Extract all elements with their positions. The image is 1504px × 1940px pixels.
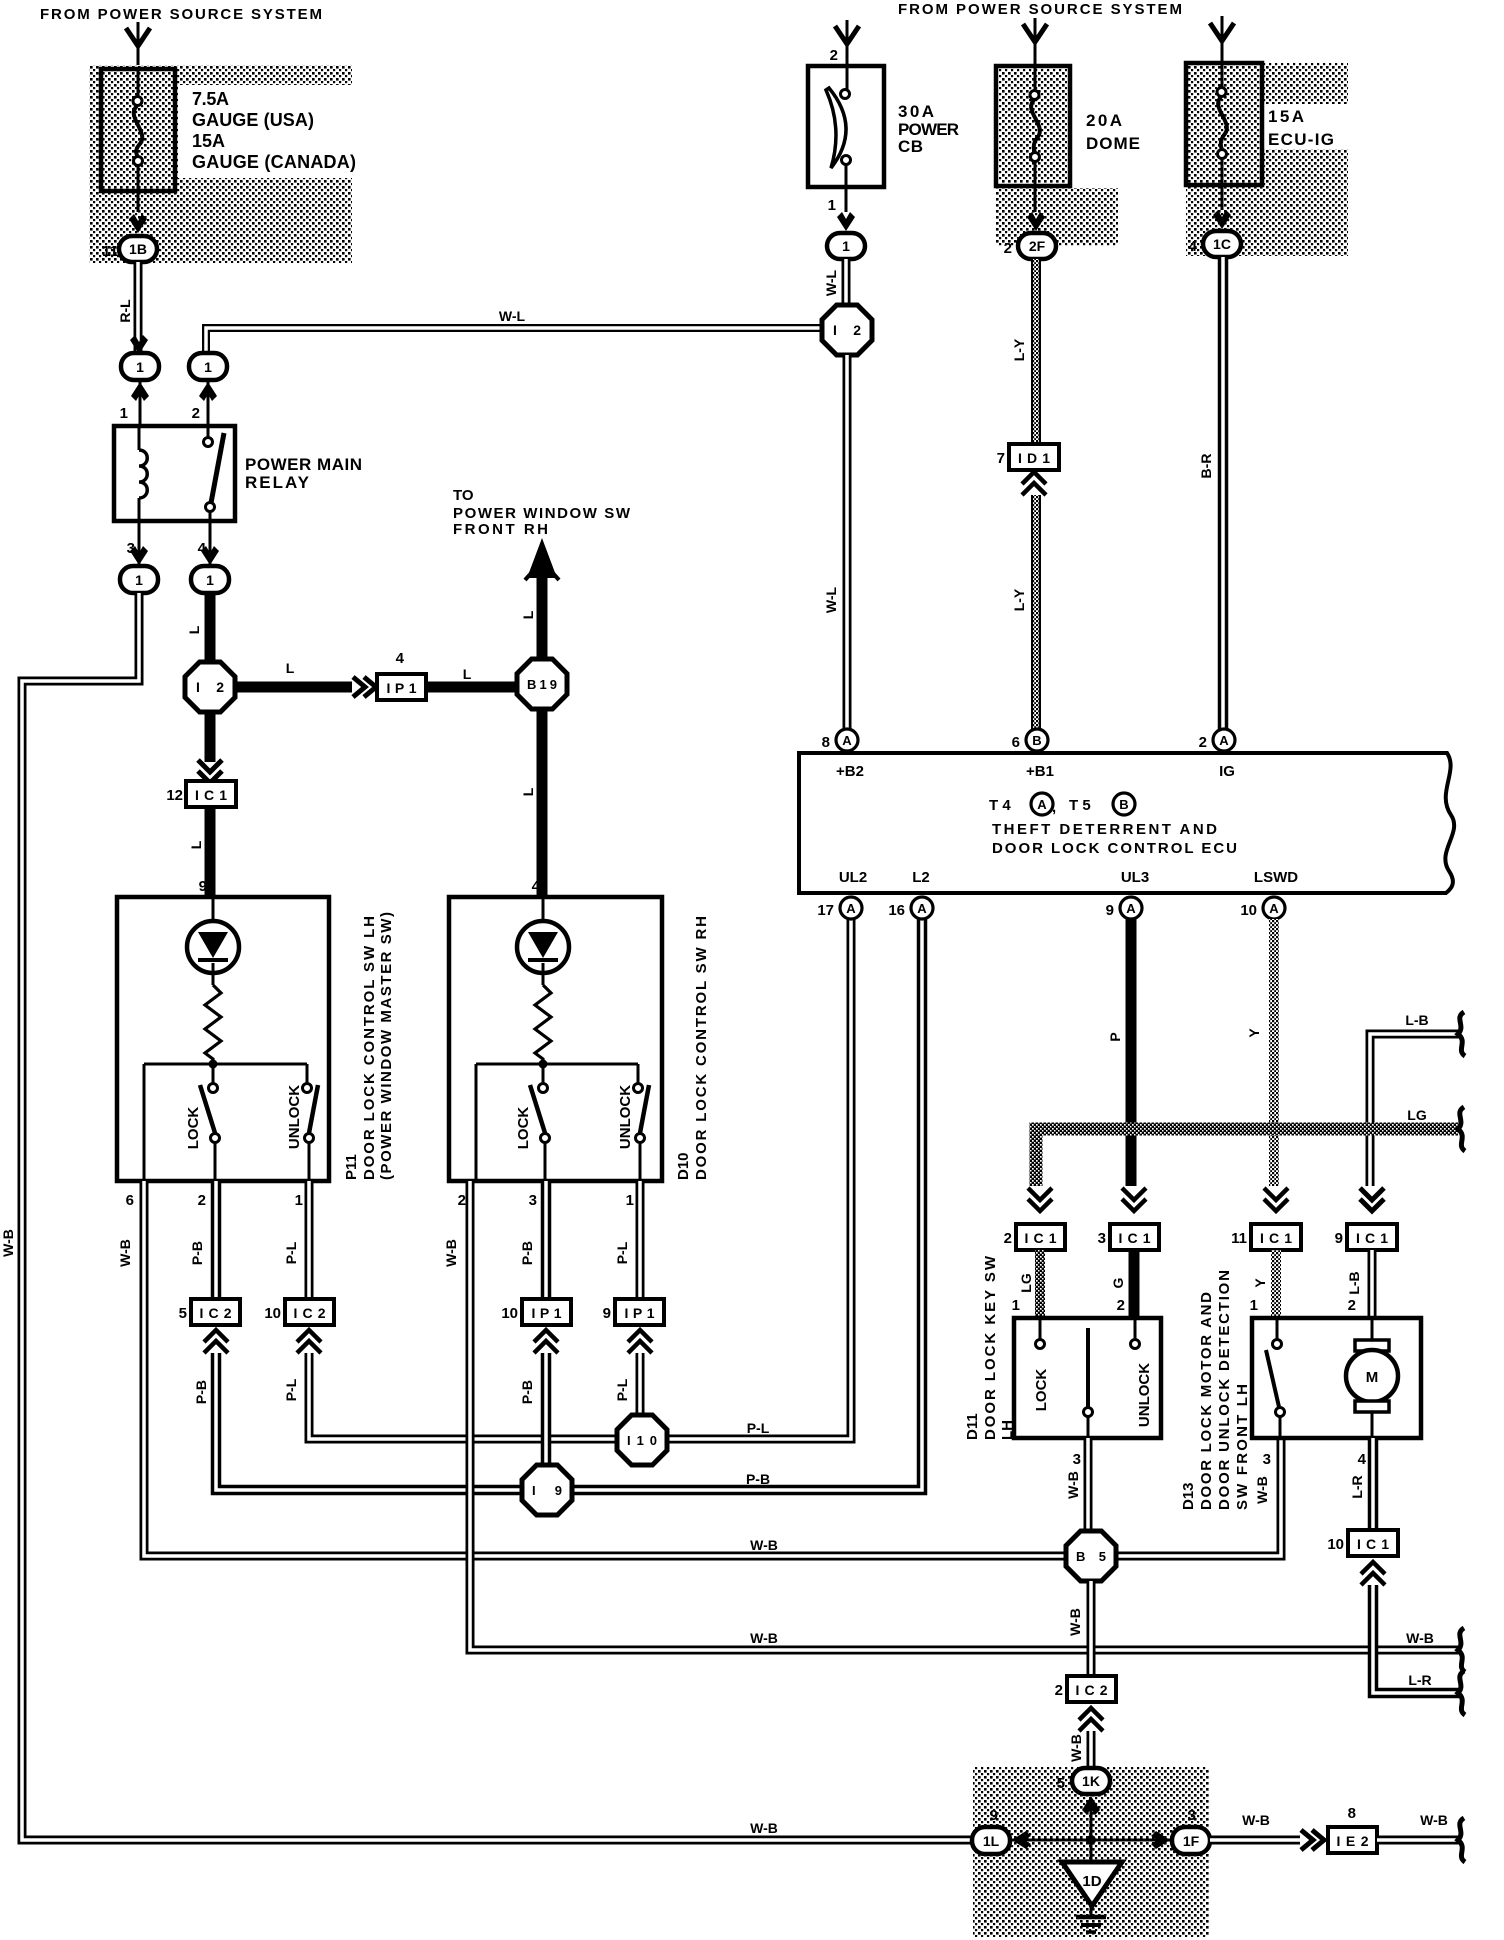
svg-text:4: 4	[532, 878, 541, 895]
svg-text:2: 2	[1055, 1682, 1063, 1699]
svg-text:10: 10	[1327, 1536, 1344, 1553]
chevrons into IE2	[1301, 1830, 1324, 1850]
svg-text:10: 10	[501, 1305, 518, 1322]
connector box IP1 pin 10	[522, 1299, 571, 1325]
svg-text:8: 8	[822, 734, 830, 751]
switch box P11 DOOR LOCK CONTROL SW LH	[117, 897, 329, 1181]
node junction	[209, 1060, 218, 1069]
stipple in and below DOME fuse	[999, 69, 1067, 183]
fuse 20A DOME box	[996, 66, 1070, 186]
svg-text:B: B	[1032, 733, 1041, 748]
svg-text:2: 2	[198, 1192, 206, 1209]
svg-text:4: 4	[1358, 1451, 1367, 1468]
wire P-B thick down to I9	[541, 1353, 552, 1470]
svg-text:9: 9	[199, 878, 207, 895]
svg-text:L: L	[520, 610, 536, 619]
svg-text:GAUGE (CANADA): GAUGE (CANADA)	[192, 152, 356, 172]
svg-text:L-R: L-R	[1349, 1475, 1365, 1498]
svg-text:W-L: W-L	[499, 308, 526, 324]
svg-text:Y: Y	[1252, 1278, 1268, 1288]
wire P-L from D10 pin1 to IP1 pin9	[636, 1181, 645, 1299]
svg-text:2: 2	[1117, 1297, 1125, 1314]
svg-text:LOCK: LOCK	[185, 1107, 202, 1150]
svg-text:5: 5	[1057, 1775, 1065, 1792]
svg-text:L: L	[286, 660, 295, 676]
connector oval 1B pin 11	[119, 236, 157, 262]
svg-text:P: P	[1107, 1032, 1123, 1041]
flow arrow down	[130, 335, 148, 354]
connector oval 1C pin 4	[1203, 231, 1241, 257]
D13 motor M	[1371, 1318, 1374, 1342]
brace W-B bottom right	[1458, 1818, 1465, 1862]
D11 key blade	[1086, 1328, 1090, 1407]
wire L thick to P11 pin 9	[205, 807, 216, 897]
chevrons up into IC1-10	[1361, 1562, 1385, 1585]
ground triangle 1D	[1062, 1862, 1122, 1906]
D11 LOCK contact	[1039, 1318, 1042, 1339]
svg-text:DOOR UNLOCK DETECTION: DOOR UNLOCK DETECTION	[1216, 1270, 1233, 1510]
svg-text:1: 1	[135, 572, 143, 588]
ECU pin 8 A +B2	[836, 729, 858, 751]
LED indicator D10	[542, 897, 545, 921]
chevrons down into IC1	[198, 760, 222, 783]
wire L thick to B19	[426, 682, 518, 693]
wire L-Y to ID1	[1031, 259, 1041, 446]
wire W-B from P11 pin6 to B5 and D13 pin3	[144, 1181, 1281, 1556]
svg-text:W-B: W-B	[1067, 1608, 1083, 1636]
svg-text:1: 1	[842, 238, 850, 254]
wire P-B from D10 pin3 to IP1 pin10	[541, 1181, 552, 1299]
svg-text:LG: LG	[1018, 1273, 1034, 1293]
wire W-B from IE2 to right brace	[1377, 1836, 1460, 1845]
svg-text:W-B: W-B	[1420, 1812, 1448, 1828]
chevrons down into IC1-11	[1264, 1188, 1288, 1211]
connector oval 1F pin 3	[1172, 1827, 1210, 1854]
svg-text:UNLOCK: UNLOCK	[1136, 1363, 1153, 1427]
chevrons up into IP1-9	[628, 1330, 652, 1353]
wire relay pin4	[209, 521, 212, 564]
wire P thick from UL3 to IC1-3	[1126, 919, 1137, 1186]
svg-text:P-B: P-B	[189, 1241, 205, 1265]
svg-text:P-L: P-L	[283, 1241, 299, 1264]
ECU pin 2 A IG	[1213, 729, 1235, 751]
connector box IC1 pin 9	[1347, 1224, 1397, 1250]
flow arrow into oval 1	[837, 212, 855, 231]
junction octagon I 9	[522, 1465, 572, 1515]
connector box ID1 pin 7	[1009, 444, 1059, 470]
svg-text:A: A	[1037, 797, 1047, 812]
svg-text:W-B: W-B	[1406, 1630, 1434, 1646]
inner switch bus	[144, 1063, 307, 1066]
fuse element	[137, 69, 140, 97]
svg-text:1: 1	[1250, 1297, 1258, 1314]
flow arrow right into 1F	[1151, 1831, 1170, 1849]
svg-text:6: 6	[1012, 734, 1020, 751]
chevrons up into IC2-2	[1079, 1708, 1103, 1731]
chevrons down into IC1-9	[1360, 1188, 1384, 1211]
svg-text:L: L	[520, 787, 536, 796]
wire L thick down from B19 to D10 pin4	[537, 709, 548, 897]
svg-text:20A: 20A	[1086, 111, 1122, 130]
wire relay pin3	[138, 521, 141, 564]
junction node dot	[1086, 1835, 1096, 1845]
chevrons up into IC2-10	[297, 1330, 321, 1353]
svg-text:L-R: L-R	[1408, 1672, 1431, 1688]
connector box IE2 pin 8	[1328, 1827, 1377, 1853]
svg-text:1: 1	[206, 572, 214, 588]
svg-text:4: 4	[1189, 238, 1198, 255]
flow arrow left into 1L	[1012, 1831, 1031, 1849]
svg-text:P-L: P-L	[747, 1420, 770, 1436]
junction octagon I 2 (mid)	[185, 662, 235, 712]
svg-text:1D: 1D	[1082, 1873, 1101, 1890]
wire P-L from P11 pin1 to IC2 pin10	[305, 1181, 314, 1299]
svg-text:L: L	[188, 840, 204, 849]
chevrons up into IC2-5	[204, 1330, 228, 1353]
svg-text:T 4: T 4	[989, 797, 1011, 814]
wire L-B to D13 pin2	[1368, 1250, 1377, 1318]
svg-text:UL3: UL3	[1121, 869, 1149, 886]
brace L-B right	[1458, 1012, 1465, 1056]
svg-text:L-Y: L-Y	[1011, 588, 1027, 611]
svg-text:1F: 1F	[1183, 1833, 1200, 1849]
junction octagon I 2 (top)	[822, 305, 872, 355]
svg-text:P-B: P-B	[519, 1241, 535, 1265]
svg-text:1: 1	[120, 405, 128, 422]
svg-text:DOOR LOCK MOTOR AND: DOOR LOCK MOTOR AND	[1198, 1292, 1215, 1510]
svg-text:UNLOCK: UNLOCK	[286, 1085, 303, 1149]
wire R-L	[134, 262, 143, 351]
stipple region junction block bottom	[973, 1767, 1209, 1937]
wire arrow into 30A CB	[846, 20, 849, 68]
wire P-B from P11 pin2 to IC2 pin5	[211, 1181, 222, 1299]
svg-text:DOME: DOME	[1086, 134, 1140, 153]
junction octagon I10	[617, 1415, 667, 1465]
svg-text:1K: 1K	[1082, 1773, 1100, 1789]
wire LG gray from right brace to IC1-2	[1036, 1129, 1458, 1186]
svg-text:CB: CB	[898, 137, 923, 156]
svg-text:G: G	[1110, 1277, 1126, 1288]
svg-text:W-B: W-B	[1065, 1471, 1081, 1499]
junction octagon B19	[517, 659, 567, 709]
svg-text:SW FRONT LH: SW FRONT LH	[1234, 1384, 1251, 1510]
svg-text:2: 2	[830, 47, 838, 64]
svg-text:W-B: W-B	[750, 1537, 778, 1553]
LED indicator P11	[212, 897, 215, 921]
connector oval 2F pin 2	[1018, 233, 1056, 259]
svg-text:15A: 15A	[192, 131, 225, 151]
svg-text:2: 2	[1348, 1297, 1356, 1314]
connector box IC2 pin 2	[1067, 1676, 1116, 1702]
svg-text:3: 3	[1263, 1451, 1271, 1468]
LOCK switch P11	[212, 1068, 215, 1083]
brace LG right	[1458, 1107, 1465, 1151]
svg-text:IG: IG	[1219, 763, 1235, 780]
connector box IP1 pin 4	[377, 674, 426, 700]
connector box IC1 pin 10	[1348, 1530, 1398, 1556]
wire P-L to ECU UL2 pin17	[309, 919, 851, 1439]
svg-text:RELAY: RELAY	[245, 473, 310, 492]
flow arrow up into oval	[199, 382, 217, 401]
svg-text:(POWER WINDOW MASTER SW): (POWER WINDOW MASTER SW)	[378, 912, 395, 1180]
wire L thick up from B19 with arrow TO POWER WINDOW SW	[537, 560, 548, 659]
svg-text:D10: D10	[675, 1152, 692, 1180]
svg-text:P-L: P-L	[614, 1378, 630, 1401]
svg-text:L-B: L-B	[1346, 1271, 1362, 1294]
svg-text:W-L: W-L	[823, 586, 839, 613]
svg-text:9: 9	[1106, 902, 1114, 919]
svg-text:P-L: P-L	[283, 1378, 299, 1401]
connector box IC1 pin 12	[186, 781, 236, 807]
wire between 1L and 1F	[1008, 1839, 1174, 1842]
flow arrow down into oval	[201, 546, 219, 565]
wire L-B from right brace to IC1-9	[1370, 1034, 1460, 1186]
connector box IC1 pin 2	[1016, 1224, 1065, 1250]
key switch box D11 DOOR LOCK KEY SW LH	[1014, 1318, 1161, 1438]
flow arrow up into 1K	[1082, 1796, 1100, 1815]
relay switch	[207, 426, 210, 437]
svg-text:2: 2	[1199, 734, 1207, 751]
svg-text:1: 1	[204, 359, 212, 375]
wire arrow into 20A DOME fuse	[1034, 18, 1037, 66]
wire relay pin2	[207, 380, 210, 426]
wire W-B from D11 pin3 to B5	[1084, 1438, 1093, 1535]
svg-text:M: M	[1366, 1369, 1379, 1386]
wire arrow into 15A ECU-IG fuse	[1221, 16, 1224, 63]
svg-text:W-B: W-B	[1254, 1476, 1270, 1504]
svg-text:LH: LH	[999, 1420, 1016, 1440]
svg-text:W-B: W-B	[750, 1630, 778, 1646]
svg-text:W-B: W-B	[750, 1820, 778, 1836]
svg-text:2: 2	[1004, 1230, 1012, 1247]
flow arrow into oval 1C	[1213, 210, 1231, 229]
switch box D10 DOOR LOCK CONTROL SW RH	[449, 897, 662, 1181]
wire W-B long return: relay pin3 to bottom left to 1L	[22, 593, 973, 1840]
svg-text:A: A	[846, 901, 856, 916]
svg-text:12: 12	[166, 787, 183, 804]
svg-text:3: 3	[1188, 1807, 1196, 1824]
svg-text:1L: 1L	[983, 1833, 1000, 1849]
connector box IC1 pin 3	[1110, 1224, 1159, 1250]
wire L-R down to right brace	[1373, 1585, 1460, 1693]
svg-text:10: 10	[1240, 902, 1257, 919]
flow arrow into connector 1B	[129, 214, 147, 233]
wire to junction node	[1090, 1798, 1093, 1862]
svg-text:ECU-IG: ECU-IG	[1268, 130, 1334, 149]
svg-text:L-Y: L-Y	[1011, 338, 1027, 361]
flow arrow down into oval	[130, 546, 148, 565]
svg-text:FROM POWER SOURCE SYSTEM: FROM POWER SOURCE SYSTEM	[898, 1, 1182, 18]
svg-text:W-L: W-L	[823, 269, 839, 296]
svg-text:8: 8	[1348, 1805, 1356, 1822]
svg-text:1: 1	[295, 1192, 303, 1209]
svg-text:P-B: P-B	[193, 1380, 209, 1404]
svg-text:1: 1	[1012, 1297, 1020, 1314]
svg-text:B: B	[1119, 797, 1128, 812]
svg-text:6: 6	[126, 1192, 134, 1209]
connector box IC2 pin 10	[285, 1299, 334, 1325]
svg-text:W-B: W-B	[443, 1239, 459, 1267]
chevrons down into IC1-3	[1122, 1188, 1146, 1211]
wire W-B from B5 down to IC2-2	[1087, 1581, 1096, 1676]
svg-text:L: L	[463, 666, 472, 682]
wire W-L short	[842, 259, 851, 306]
UNLOCK switch D10	[637, 1064, 640, 1083]
svg-text:POWER WINDOW SW: POWER WINDOW SW	[453, 505, 631, 522]
svg-text:16: 16	[888, 902, 905, 919]
chevrons up into ID1	[1022, 472, 1046, 495]
svg-text:B-R: B-R	[1198, 454, 1214, 479]
svg-text:7.5A: 7.5A	[192, 89, 229, 109]
svg-text:11: 11	[1231, 1230, 1247, 1247]
chevrons down into IC1-2	[1028, 1188, 1052, 1211]
svg-text:+B2: +B2	[836, 763, 864, 780]
D13 detection switch	[1276, 1318, 1279, 1339]
fuse 7.5A GAUGE box	[101, 69, 175, 191]
flow arrow up into oval	[131, 382, 149, 401]
svg-text:2F: 2F	[1029, 238, 1046, 254]
resistor P11	[205, 985, 221, 1062]
svg-text:D11: D11	[964, 1413, 981, 1440]
wire relay pin1	[139, 380, 142, 426]
svg-text:GAUGE (USA): GAUGE (USA)	[192, 110, 314, 130]
wire Y gray to D13 pin1	[1271, 1250, 1281, 1318]
svg-text:A: A	[1269, 901, 1279, 916]
svg-text:FROM POWER SOURCE SYSTEM: FROM POWER SOURCE SYSTEM	[40, 6, 322, 23]
svg-text:7: 7	[997, 450, 1005, 467]
svg-text:2: 2	[458, 1192, 466, 1209]
svg-text:LOCK: LOCK	[515, 1107, 532, 1150]
inner switch bus	[476, 1063, 638, 1066]
svg-text:2: 2	[1004, 240, 1012, 257]
svg-text:+B1: +B1	[1026, 763, 1054, 780]
svg-text:9: 9	[1335, 1230, 1343, 1247]
D11 UNLOCK contact	[1134, 1318, 1137, 1339]
LOCK switch D10	[542, 1068, 545, 1083]
brace L-R right	[1458, 1671, 1465, 1715]
svg-text:W-B: W-B	[0, 1229, 16, 1257]
resistor D10	[535, 985, 551, 1062]
svg-text:UL2: UL2	[839, 869, 867, 886]
svg-text:A: A	[917, 901, 927, 916]
connector oval 1 (relay pin 2)	[189, 353, 227, 380]
connector oval 1L pin 9	[972, 1827, 1010, 1854]
wire W-B from 1F to IE2	[1210, 1836, 1300, 1845]
svg-text:DOOR LOCK CONTROL SW RH: DOOR LOCK CONTROL SW RH	[693, 916, 710, 1180]
wire W-B down to 1K	[1087, 1731, 1096, 1768]
wire P-B to ECU L2 pin16	[216, 919, 922, 1490]
svg-text:3: 3	[529, 1192, 537, 1209]
svg-text:3: 3	[1073, 1451, 1081, 1468]
svg-text:5: 5	[179, 1305, 187, 1322]
wire G thick to D11 pin2	[1129, 1250, 1140, 1318]
svg-text:L: L	[186, 625, 202, 634]
connector oval 1 (relay pin 4)	[191, 566, 229, 593]
svg-text:DOOR LOCK KEY SW: DOOR LOCK KEY SW	[982, 1255, 999, 1440]
wire B-R to ECU IG	[1218, 257, 1229, 729]
wire Y gray from LSWD to IC1-11	[1269, 919, 1279, 1186]
svg-text:W-B: W-B	[1242, 1812, 1270, 1828]
svg-text:10: 10	[264, 1305, 281, 1322]
svg-text:D13: D13	[1180, 1482, 1197, 1510]
fuse 15A ECU-IG box	[1186, 63, 1262, 185]
svg-text:A: A	[1219, 733, 1229, 748]
svg-text:9: 9	[603, 1305, 611, 1322]
svg-text:LOCK: LOCK	[1033, 1369, 1050, 1412]
connector oval 1K pin 5	[1072, 1768, 1110, 1794]
svg-text:2: 2	[192, 405, 200, 422]
connector box IC1 pin 11	[1251, 1224, 1301, 1250]
wire L thick: relay pin4 oval to I2 octagon	[205, 593, 216, 663]
ECU pin 6 B +B1	[1026, 729, 1048, 751]
wire LG gray to D11 pin1	[1035, 1250, 1045, 1318]
svg-text:T 5: T 5	[1069, 797, 1091, 814]
connector box IP1 pin 9	[615, 1299, 664, 1325]
connector oval 1 (CB out)	[827, 233, 865, 259]
svg-text:A: A	[1126, 901, 1136, 916]
wire W-B from D10 pin2 long to right brace	[470, 1181, 1460, 1650]
svg-text:THEFT DETERRENT AND: THEFT DETERRENT AND	[992, 821, 1217, 838]
wire W-L horizontal to relay pin 2 oval	[206, 328, 823, 352]
flow arrow into oval 2F	[1027, 212, 1045, 231]
svg-text:4: 4	[396, 650, 405, 667]
ECU box THEFT DETERRENT AND DOOR LOCK CONTROL ECU	[799, 753, 1454, 893]
relay POWER MAIN RELAY box	[114, 426, 235, 521]
svg-text:Y: Y	[1246, 1028, 1262, 1038]
svg-text:15A: 15A	[1268, 107, 1304, 126]
svg-text:1: 1	[626, 1192, 634, 1209]
wire L thick right to IP1	[235, 682, 352, 693]
svg-text:DOOR LOCK CONTROL SW LH: DOOR LOCK CONTROL SW LH	[361, 916, 378, 1180]
svg-text:LSWD: LSWD	[1254, 869, 1298, 886]
svg-text:R-L: R-L	[117, 299, 133, 323]
relay coil	[138, 426, 141, 450]
wire L-Y to ECU +B1	[1031, 495, 1041, 729]
junction octagon B 5	[1066, 1531, 1116, 1581]
svg-text:TO: TO	[453, 487, 474, 504]
svg-text:B19: B19	[527, 677, 557, 692]
stipple region around gauge fuse	[89, 65, 352, 263]
svg-text:W-B: W-B	[117, 1239, 133, 1267]
stipple region ECU-IG	[1186, 63, 1348, 256]
svg-text:1: 1	[136, 359, 144, 375]
svg-text:1B: 1B	[129, 241, 147, 257]
svg-text:UNLOCK: UNLOCK	[617, 1085, 634, 1149]
wire P-L down to I10	[636, 1353, 645, 1425]
wire L-R from D13 pin4 to IC1-10	[1368, 1438, 1379, 1530]
svg-text:P-B: P-B	[746, 1471, 770, 1487]
svg-text:1C: 1C	[1213, 236, 1231, 252]
wire arrow into gauge fuse	[137, 22, 140, 68]
svg-text:B 5: B 5	[1076, 1549, 1106, 1564]
connector box IC2 pin 5	[191, 1299, 240, 1325]
circuit breaker 30A POWER CB box	[808, 66, 884, 187]
svg-text:30A: 30A	[898, 102, 934, 121]
svg-text:L-B: L-B	[1405, 1012, 1428, 1028]
motor box D13 DOOR LOCK MOTOR AND DOOR UNLOCK DETECTION SW FRONT LH	[1252, 1318, 1421, 1438]
svg-text:P11: P11	[343, 1154, 360, 1180]
node junction	[539, 1060, 548, 1069]
svg-text:A: A	[842, 733, 852, 748]
connector oval 1 (relay pin 1)	[121, 353, 159, 380]
brace W-B right	[1458, 1628, 1465, 1672]
ground symbol	[1090, 1906, 1093, 1915]
chevrons up into IP1-10	[534, 1330, 558, 1353]
wire L thick down from I2 to IC1 pin12	[205, 712, 216, 762]
svg-text:9: 9	[990, 1807, 998, 1824]
svg-text:11: 11	[102, 243, 118, 260]
svg-text:3: 3	[1098, 1230, 1106, 1247]
